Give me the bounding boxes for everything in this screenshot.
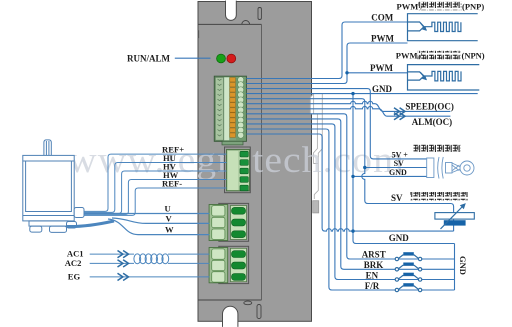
svg-text:SV: SV (391, 193, 403, 203)
svg-text:REF-: REF- (162, 178, 182, 188)
svg-text:SPEED(OC): SPEED(OC) (405, 101, 454, 111)
svg-text:ALM(OC): ALM(OC) (412, 117, 453, 127)
svg-text:PWM: PWM (370, 63, 393, 73)
svg-text:GND: GND (458, 256, 468, 275)
svg-text:COM: COM (371, 12, 394, 22)
svg-text:U: U (165, 204, 171, 214)
svg-text:(PNP): (PNP) (462, 2, 484, 12)
svg-text:GND: GND (389, 233, 410, 243)
svg-text:PWM: PWM (371, 33, 394, 43)
svg-text:(NPN): (NPN) (462, 51, 485, 61)
svg-text:W: W (165, 225, 174, 235)
svg-text:F/R: F/R (365, 281, 380, 291)
svg-text:ARST: ARST (362, 250, 386, 260)
svg-text:EN: EN (366, 271, 379, 281)
svg-text:GND: GND (372, 84, 393, 94)
svg-text:V: V (166, 214, 173, 224)
svg-text:RUN/ALM: RUN/ALM (127, 54, 171, 64)
svg-text:BRK: BRK (364, 260, 384, 270)
svg-text:EG: EG (68, 272, 81, 282)
svg-text:GND: GND (389, 168, 407, 177)
svg-text:AC2: AC2 (65, 258, 82, 268)
svg-text:SV: SV (394, 159, 404, 168)
